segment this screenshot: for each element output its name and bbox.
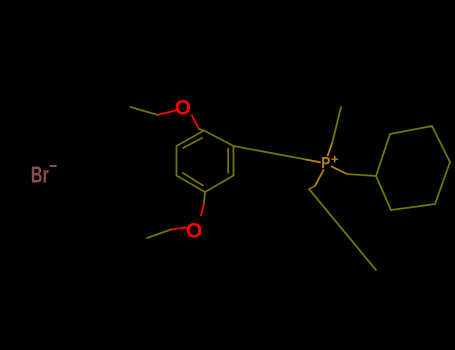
bond O2-C3 (red) [171, 228, 187, 230]
bond O1-C1 (red) [158, 111, 175, 115]
double bond inner line, upper-left edge [183, 138, 202, 148]
bond O2-ring olive half [204, 192, 205, 204]
Br minus charge bar [50, 165, 57, 167]
P up arm orange half [328, 142, 333, 156]
P down-left arm olive elbow [309, 186, 315, 189]
cyclohexyl ring (right) [376, 126, 450, 210]
double bond inner line, lower-left edge [183, 173, 203, 186]
bond O1-ring olive tip [199, 129, 204, 131]
chain ring-to-P olive part [234, 146, 307, 160]
svg-text:+: + [331, 152, 339, 167]
benzene ring (left aryl ring) [177, 131, 234, 193]
double bond inner line, right edge [227, 149, 229, 173]
svg-text:Br: Br [31, 162, 49, 188]
P right arm orange half [332, 167, 348, 175]
chain orange part near P [306, 160, 320, 163]
P up arm olive half [333, 107, 342, 142]
bond C1-C2 (olive, top ethyl tail) [131, 107, 158, 115]
bond O1-ring (red) [192, 115, 199, 129]
P down-left arm orange half [315, 170, 324, 186]
long diagonal chain going down-right [309, 189, 376, 270]
svg-text:P: P [321, 155, 330, 172]
svg-text:O: O [175, 96, 191, 119]
svg-text:O: O [186, 219, 202, 242]
bond C3-C4 (olive, bottom ethyl tail) [147, 230, 171, 239]
P right arm olive half [347, 174, 376, 176]
bond O2-ring red stub [201, 204, 204, 216]
